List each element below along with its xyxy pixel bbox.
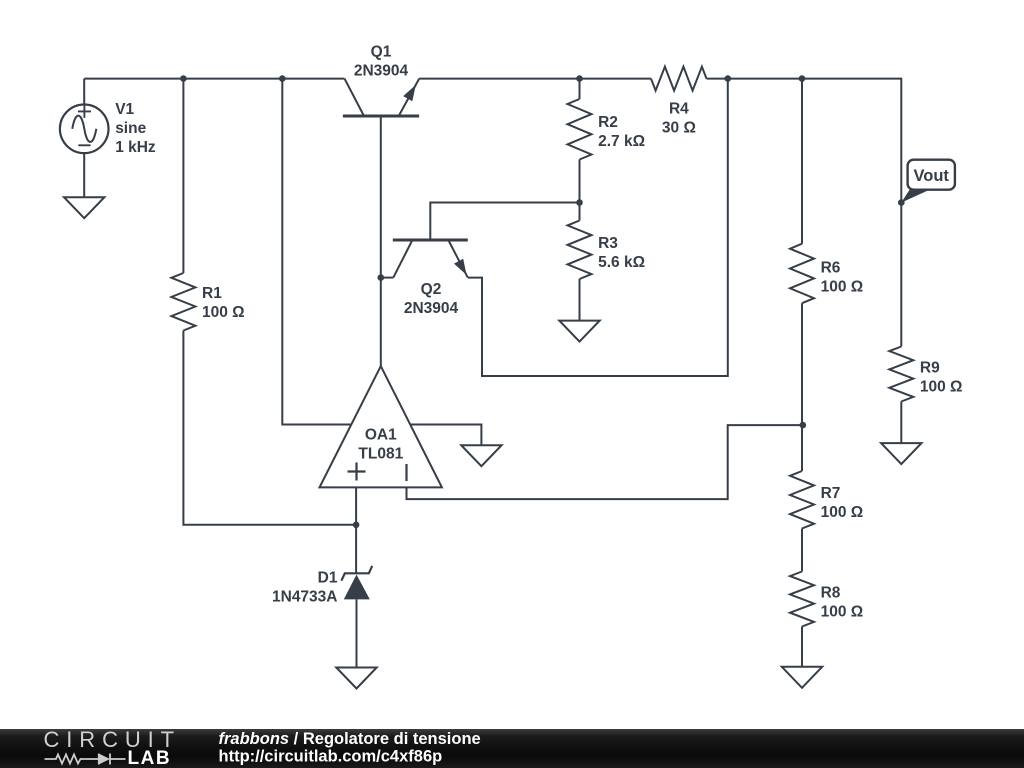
resistor R6 xyxy=(790,244,814,304)
resistor R4 xyxy=(651,67,707,91)
wire: op-amp V- pin to ground xyxy=(410,425,482,446)
wire: R1 bottom, right to op-amp + node xyxy=(183,331,356,525)
wire: top rail from V1 to Q1 collector xyxy=(84,78,344,80)
svg-text:1 kHz: 1 kHz xyxy=(115,139,156,156)
wire: Q1 emitter to R4 left xyxy=(419,78,651,80)
transistor Q1 xyxy=(343,79,419,116)
node Q1 base / Q2 collector xyxy=(378,274,385,281)
wire: R6 top lead xyxy=(801,79,803,244)
svg-text:sine: sine xyxy=(115,120,146,137)
transistor Q2 xyxy=(393,240,468,278)
svg-text:frabbons / Regolatore di tensi: frabbons / Regolatore di tensione xyxy=(219,730,481,748)
wire: Q2 emitter down, right and up to top rail xyxy=(468,79,728,376)
svg-text:R1: R1 xyxy=(202,285,222,302)
svg-text:1N4733A: 1N4733A xyxy=(272,589,338,606)
node R6-R7 / feedback xyxy=(800,422,807,429)
op-amp OA1 xyxy=(320,366,442,487)
wire: R3 bottom lead xyxy=(579,279,581,321)
wire: op-amp - input feedback to R6/R7 node xyxy=(407,425,803,499)
wire: V1 top lead xyxy=(83,79,85,105)
svg-text:R9: R9 xyxy=(920,360,940,377)
resistor R2 xyxy=(568,99,592,160)
svg-text:OA1: OA1 xyxy=(365,427,397,444)
svg-text:Q1: Q1 xyxy=(371,44,392,61)
ground (R3) xyxy=(559,321,599,342)
svg-text:R7: R7 xyxy=(821,485,841,502)
svg-text:R8: R8 xyxy=(821,585,841,602)
node top rail / R1 xyxy=(180,75,187,82)
wire: D1 top lead xyxy=(355,525,357,574)
svg-text:30 Ω: 30 Ω xyxy=(662,120,696,137)
wire: D1 bottom lead xyxy=(356,599,358,667)
resistor R7 xyxy=(790,471,814,529)
ground (op-amp V-) xyxy=(461,445,501,466)
svg-text:2N3904: 2N3904 xyxy=(354,63,409,80)
svg-text:100 Ω: 100 Ω xyxy=(821,604,864,621)
wire: R2 bottom to R3 top xyxy=(579,160,581,221)
svg-text:Vout: Vout xyxy=(913,167,949,185)
svg-text:R6: R6 xyxy=(821,259,841,276)
svg-text:5.6 kΩ: 5.6 kΩ xyxy=(598,254,645,271)
svg-text:2N3904: 2N3904 xyxy=(404,300,459,317)
resistor R9 xyxy=(889,347,913,402)
resistor R8 xyxy=(790,572,814,627)
svg-text:R2: R2 xyxy=(598,114,618,131)
ground (R9) xyxy=(881,443,921,464)
wire: Q1 base down to op-amp output xyxy=(380,116,382,366)
footer bar xyxy=(0,729,1024,768)
svg-text:LAB: LAB xyxy=(128,748,172,768)
svg-text:100 Ω: 100 Ω xyxy=(821,278,864,295)
zener diode D1 xyxy=(341,566,372,600)
node Vout tap xyxy=(898,199,905,206)
node top rail / R6 xyxy=(799,75,806,82)
wire: R1 top lead xyxy=(182,79,184,273)
svg-text:100 Ω: 100 Ω xyxy=(920,379,963,396)
svg-text:R3: R3 xyxy=(598,235,618,252)
wire: R2 top lead xyxy=(579,79,581,99)
wire: V1 bottom lead xyxy=(83,153,85,197)
wire: R9 bottom lead xyxy=(900,402,902,444)
resistor R3 xyxy=(568,221,592,280)
wire: left rail from top to op-amp V+ pin xyxy=(282,79,352,425)
node top rail / Q2 emitter riser xyxy=(725,75,732,82)
wire: R6 bottom to R7 top xyxy=(801,303,803,471)
wire: Q2 collector stub xyxy=(381,277,394,279)
ground (D1) xyxy=(336,668,376,689)
svg-text:100 Ω: 100 Ω xyxy=(821,504,864,521)
svg-text:V1: V1 xyxy=(115,101,134,118)
svg-text:100 Ω: 100 Ω xyxy=(202,304,245,321)
logo mini-schematic (resistor + diode) xyxy=(45,754,126,765)
Vout flag xyxy=(901,160,955,203)
wire: R4 right along top to right edge, down to R9 xyxy=(707,79,902,347)
svg-text:http://circuitlab.com/c4xf86p: http://circuitlab.com/c4xf86p xyxy=(219,748,443,766)
node top rail / left rail xyxy=(279,75,286,82)
svg-text:2.7 kΩ: 2.7 kΩ xyxy=(598,133,645,150)
wire: Q2 base up and right to R2/R3 node xyxy=(430,203,579,241)
node R2-R3 / Q2 base xyxy=(576,199,583,206)
ground (R8) xyxy=(782,667,822,688)
node op-amp + / R1 / D1 xyxy=(353,522,360,529)
wire: op-amp + input stub xyxy=(355,487,357,524)
node top rail / R2 xyxy=(576,75,583,82)
svg-text:R4: R4 xyxy=(669,101,689,118)
voltage source V1 xyxy=(60,105,109,154)
wire: R7 to R8 xyxy=(801,529,803,572)
svg-text:Q2: Q2 xyxy=(421,281,442,298)
svg-text:D1: D1 xyxy=(318,570,338,587)
ground (V1) xyxy=(64,197,104,218)
resistor R1 xyxy=(171,273,195,331)
wire: R8 bottom lead xyxy=(801,627,803,667)
svg-text:TL081: TL081 xyxy=(358,446,403,463)
